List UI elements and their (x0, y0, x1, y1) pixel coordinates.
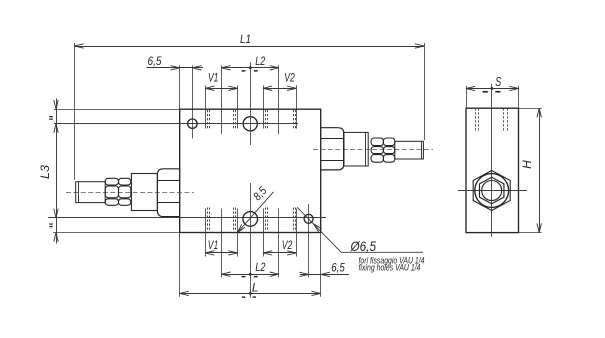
port P top circle (243, 117, 257, 131)
hidden threaded holes bottom row (207, 208, 209, 232)
leader 8,5 for port depth (237, 192, 273, 233)
svg-text:V1: V1 (208, 238, 219, 252)
left fitting body (131, 174, 157, 211)
svg-text:6,5: 6,5 (331, 261, 345, 275)
side view body (466, 108, 519, 232)
port V1 top circle (188, 119, 197, 128)
svg-text:V2: V2 (282, 238, 293, 252)
right fitting centerline (313, 149, 433, 151)
port centerline P bottom (250, 183, 252, 298)
dimension H (539, 108, 541, 232)
dimension V2 bottom (263, 252, 296, 254)
port centerline P top (250, 62, 252, 145)
svg-text:Ø6,5: Ø6,5 (350, 239, 377, 254)
port V2 bottom circle (304, 214, 313, 223)
bottom port row centerline (48, 217, 326, 219)
svg-text:L3: L3 (38, 165, 52, 179)
hex plug outer hexagon (473, 171, 510, 211)
dimension L1 (75, 46, 425, 48)
svg-text:S: S (495, 75, 501, 89)
hole extension lines top (205, 85, 207, 128)
left fitting large hex nut (157, 169, 179, 217)
leader diameter 6,5 fixing holes (297, 207, 423, 252)
hex plug chamfer circle (475, 174, 509, 208)
side view horizontal centerline (458, 190, 527, 192)
block top edge extension line (54, 109, 180, 111)
svg-text:L: L (252, 280, 259, 294)
dimension 6,5 bottom right (300, 274, 349, 276)
left dimension line with = marks and L3 (56, 99, 58, 244)
hex plug inner circle (482, 181, 502, 201)
hole extension lines bottom (205, 209, 207, 257)
svg-text:fixing holes VAU 1/4: fixing holes VAU 1/4 (359, 263, 421, 273)
svg-text:L2: L2 (255, 260, 265, 274)
hex plug inner hexagon (479, 177, 503, 203)
right fitting hex nut 2 (383, 138, 394, 146)
top port row centerline (54, 123, 298, 125)
svg-text:V2: V2 (284, 71, 295, 85)
dimension L bottom (180, 293, 321, 295)
left fitting centerline (66, 192, 194, 194)
main valve block (180, 109, 321, 232)
dimension S (466, 88, 519, 90)
side view hidden holes (475, 108, 477, 131)
hidden threaded holes top row (207, 110, 209, 129)
left fitting hex nut 1 (105, 178, 118, 185)
side view vertical centerline (491, 84, 493, 237)
dimension 6,5 top (147, 67, 204, 69)
port centerline V1 top (192, 65, 194, 138)
dimension L2 bottom (221, 274, 279, 276)
dimension V1 bottom (205, 252, 237, 254)
svg-text:L1: L1 (240, 32, 251, 46)
dimension V1 top (205, 88, 237, 90)
svg-text:6,5: 6,5 (148, 54, 162, 68)
port centerline V2 bottom (308, 204, 310, 278)
left fitting hex nut 2 (119, 178, 131, 185)
svg-text:H: H (520, 160, 534, 169)
dimension V2 top (263, 88, 296, 90)
left fitting pin (76, 182, 106, 203)
block bottom edge extension line (53, 232, 180, 234)
right fitting body (344, 132, 369, 166)
svg-text:V1: V1 (208, 71, 219, 85)
dimension L2 top (221, 67, 279, 69)
port P bottom circle (243, 212, 258, 227)
right fitting pin (395, 141, 424, 159)
right fitting large hex nut (321, 128, 344, 170)
svg-text:L2: L2 (255, 54, 265, 68)
right fitting hex nut 1 (371, 138, 383, 146)
